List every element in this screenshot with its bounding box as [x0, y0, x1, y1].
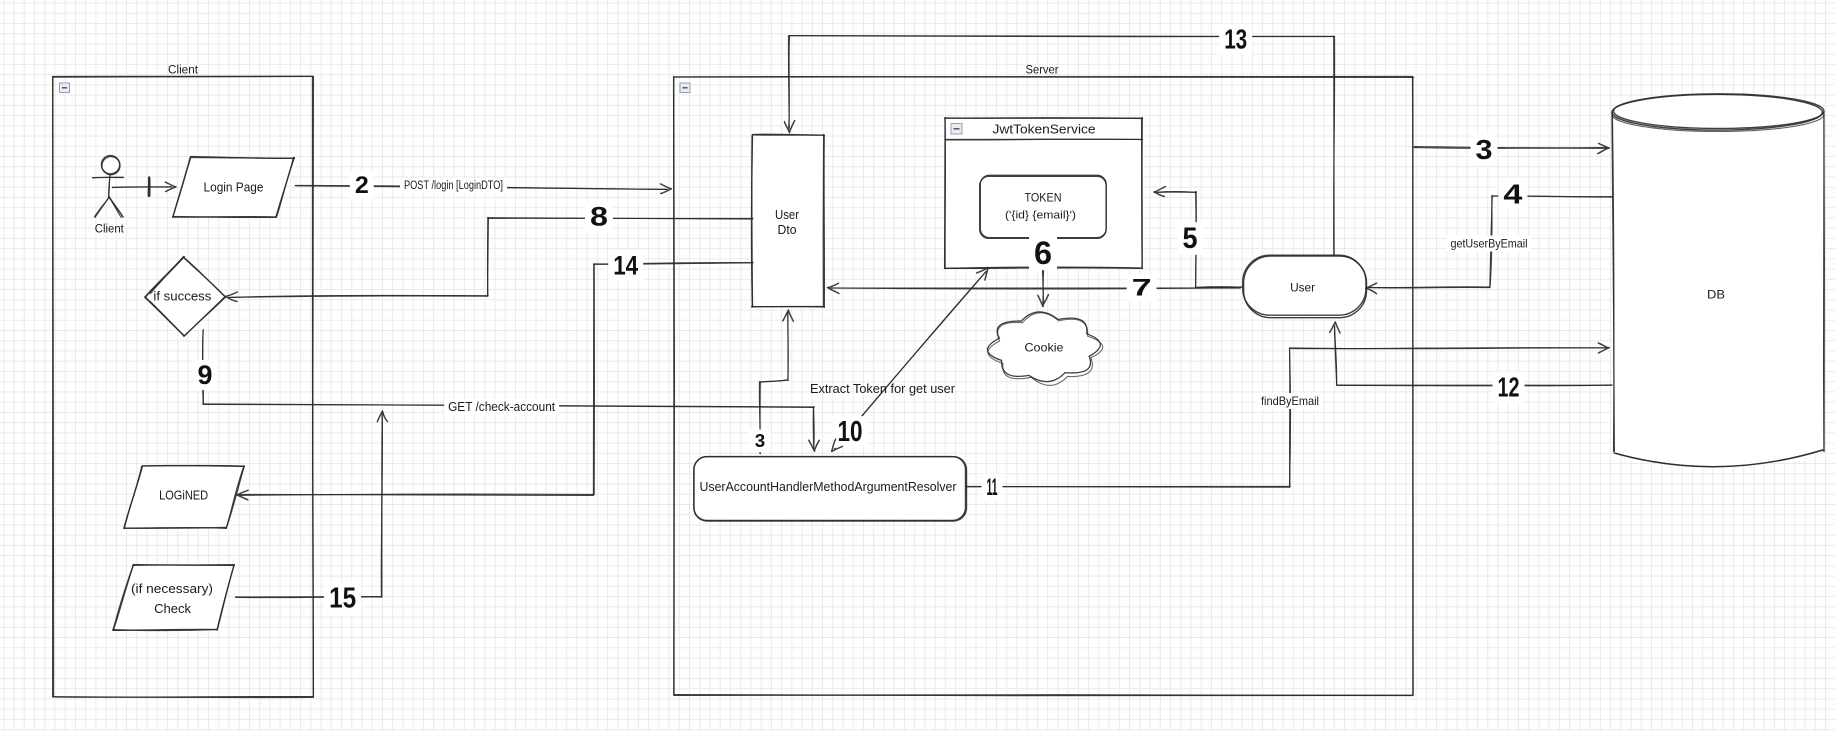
svg-text:Extract Token for get user: Extract Token for get user — [810, 382, 955, 396]
svg-text:Login Page: Login Page — [204, 180, 264, 195]
svg-text:14: 14 — [613, 251, 638, 281]
svg-text:Dto: Dto — [778, 223, 797, 237]
svg-text:LOGiNED: LOGiNED — [159, 489, 208, 503]
svg-text:TOKEN: TOKEN — [1025, 191, 1062, 205]
svg-text:Check: Check — [154, 602, 192, 616]
svg-text:Client: Client — [95, 224, 125, 236]
svg-text:JwtTokenService: JwtTokenService — [993, 122, 1096, 137]
svg-text:User: User — [1290, 281, 1315, 295]
svg-text:Client: Client — [168, 65, 199, 77]
svg-text:11: 11 — [987, 474, 998, 501]
svg-text:3: 3 — [1476, 134, 1493, 165]
svg-text:15: 15 — [329, 583, 356, 615]
svg-text:(if necessary): (if necessary) — [131, 582, 213, 596]
svg-text:findByEmail: findByEmail — [1261, 394, 1319, 408]
svg-text:9: 9 — [198, 360, 213, 390]
svg-text:7: 7 — [1132, 274, 1152, 301]
svg-text:3: 3 — [755, 431, 765, 451]
svg-text:4: 4 — [1503, 178, 1523, 209]
svg-text:if success: if success — [153, 290, 211, 304]
svg-text:User: User — [775, 208, 799, 222]
svg-text:Cookie: Cookie — [1025, 341, 1064, 355]
svg-text:2: 2 — [355, 172, 369, 199]
svg-text:6: 6 — [1034, 235, 1052, 271]
svg-text:getUserByEmail: getUserByEmail — [1451, 237, 1528, 251]
svg-text:DB: DB — [1707, 288, 1725, 302]
svg-text:POST /login [LoginDTO]: POST /login [LoginDTO] — [404, 180, 503, 192]
svg-text:GET /check-account: GET /check-account — [448, 400, 555, 414]
svg-text:UserAccountHandlerMethodArgume: UserAccountHandlerMethodArgumentResolver — [700, 479, 958, 494]
svg-text:('{id} {email}'): ('{id} {email}') — [1005, 210, 1076, 222]
svg-text:Server: Server — [1026, 65, 1059, 77]
svg-text:5: 5 — [1183, 222, 1198, 255]
svg-text:8: 8 — [590, 201, 608, 231]
svg-text:10: 10 — [838, 416, 863, 448]
svg-text:12: 12 — [1498, 372, 1520, 403]
svg-text:13: 13 — [1224, 24, 1247, 55]
